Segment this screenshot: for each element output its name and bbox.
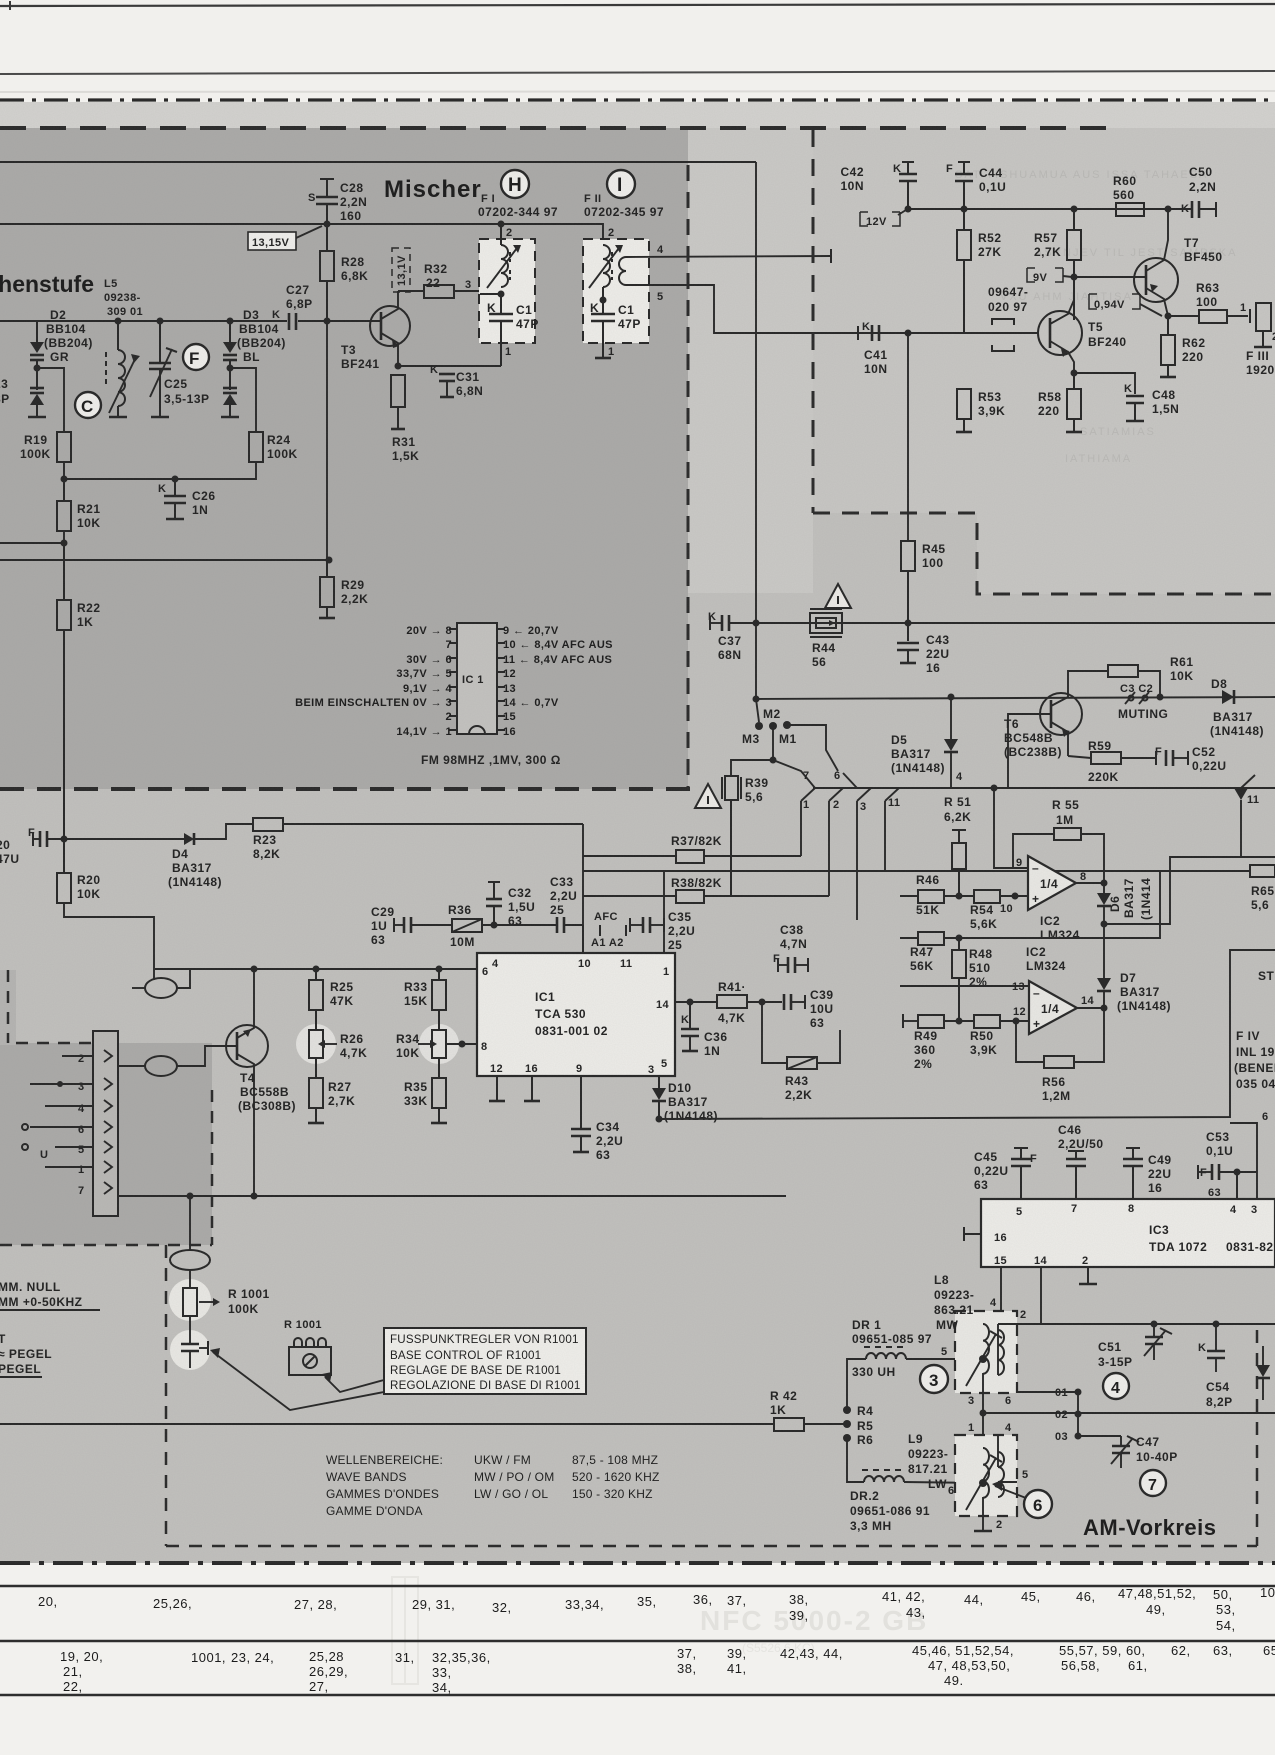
wire D6 node across [1104, 857, 1275, 924]
svg-text:54,: 54, [1216, 1618, 1236, 1633]
second top rule [0, 71, 1275, 74]
voltage label 0,94V [1089, 294, 1140, 309]
svg-text:1001,: 1001, [191, 1650, 226, 1665]
transistor T6 [1040, 693, 1082, 735]
svg-text:21,: 21, [63, 1664, 83, 1679]
svg-text:37,: 37, [677, 1646, 697, 1661]
circled I [607, 170, 635, 198]
resistor R62 [1167, 316, 1169, 335]
svg-text:NFC 5000-2 GB: NFC 5000-2 GB [700, 1605, 928, 1636]
node emitter/R63 [1165, 313, 1172, 320]
rail above [1040, 1310, 1042, 1324]
resistor R58 [1073, 373, 1075, 389]
filter F III [1249, 309, 1251, 323]
svg-text:32,35,36,: 32,35,36, [432, 1650, 491, 1665]
feedthrough oval lower [170, 1250, 210, 1270]
node C28 [324, 221, 331, 228]
resistor R52 [963, 209, 965, 230]
capacitor C29 [393, 918, 395, 932]
resistor R60 [1100, 208, 1116, 210]
resistor R35 [438, 1058, 440, 1078]
resistor R22 [63, 543, 65, 600]
svg-text:55,57, 59, 60,: 55,57, 59, 60, [1059, 1643, 1146, 1658]
wire y839 [47, 838, 184, 840]
row 1 numbers [38, 1585, 1275, 1633]
fuse R44 [810, 613, 842, 633]
rails R37 R38 [583, 855, 676, 857]
resistor R19 [57, 432, 71, 462]
voltage label 13,1V rotated [392, 248, 410, 292]
main rail y788 [813, 787, 1275, 789]
dashed outline dark patch [16, 1042, 93, 1045]
resistor R53 [957, 389, 971, 419]
svg-text:25,28: 25,28 [309, 1649, 344, 1664]
svg-text:27, 28,: 27, 28, [294, 1597, 337, 1612]
varactor D3 [227, 318, 234, 325]
transistor T4 [226, 1025, 268, 1067]
svg-text:43,: 43, [906, 1605, 926, 1620]
wire D3 to R24 [230, 368, 256, 432]
svg-text:36,: 36, [693, 1592, 713, 1607]
node F I pin2 [498, 221, 505, 228]
rail R42 [0, 1423, 774, 1425]
svg-text:45,: 45, [1021, 1589, 1041, 1604]
tick top-left [9, 1, 11, 10]
svg-text:62,: 62, [1171, 1643, 1191, 1658]
circled C [75, 392, 101, 418]
transistor T7 [1134, 258, 1178, 302]
circled 7 [1140, 1470, 1166, 1496]
svg-text:44,: 44, [964, 1592, 984, 1607]
muting rail y697 [756, 697, 1275, 699]
bottom white table area [0, 1563, 1275, 1755]
capacitor C32 [488, 881, 500, 883]
svg-text:56,58,: 56,58, [1061, 1658, 1100, 1673]
feedback R55 [1013, 834, 1054, 868]
resistor R59 [1068, 756, 1091, 758]
wire varactor rail y321 [0, 320, 240, 322]
resistor R63 [1168, 315, 1199, 317]
FM oscillator dashed-box lighter interior [813, 128, 1275, 513]
diode D8 [1222, 690, 1234, 704]
svg-text:26,29,: 26,29, [309, 1664, 348, 1679]
diode D10 [658, 1076, 660, 1088]
warning triangle [825, 584, 851, 608]
light band under dash-dot rule [0, 102, 1275, 128]
wire main bus y224 [0, 224, 603, 239]
voltage label 9V [1027, 268, 1063, 282]
diode right edge [1256, 1365, 1270, 1377]
svg-text:41, 42,: 41, 42, [882, 1589, 925, 1604]
svg-text:38,: 38, [677, 1661, 697, 1676]
svg-text:53,: 53, [1216, 1602, 1236, 1617]
input rail pin12 R49 R50 [902, 1014, 904, 1028]
voltage label 12V [860, 212, 900, 226]
svg-text:61,: 61, [1128, 1658, 1148, 1673]
mixer block dashed right border [687, 165, 690, 789]
wire vertical from y162 rail [755, 162, 757, 699]
switch LW [955, 1435, 1017, 1516]
wire base rail [298, 320, 380, 322]
resistor R27 [315, 1058, 317, 1078]
dark patch bottom-left connector area [0, 1043, 212, 1245]
varactor D2 [36, 321, 38, 342]
node T3 base [324, 318, 331, 325]
svg-text:39,: 39, [727, 1646, 747, 1661]
resistor R57 [1073, 209, 1075, 230]
transistor T3 [370, 306, 410, 346]
wire F II pin4 [626, 256, 831, 257]
switch MW [955, 1311, 1017, 1393]
choke DR2 [847, 1438, 864, 1482]
row 2 numbers [60, 1643, 1275, 1695]
svg-text:50,: 50, [1213, 1587, 1233, 1602]
resistor R41 [717, 995, 747, 1008]
capacitor C49 [1132, 1148, 1134, 1158]
capacitor C43 electrolytic [907, 623, 909, 641]
wire R23 column to IC1 pin10 [582, 824, 584, 953]
emitter node T5 [1071, 370, 1078, 377]
resistor R33 [438, 969, 440, 980]
resistor R36 [452, 919, 482, 932]
diode D6 [1097, 893, 1111, 905]
voltage label 13,15V [248, 232, 296, 250]
wire F II pin5 [626, 285, 1038, 333]
node base rail / R45 column [905, 330, 912, 337]
circled H [501, 170, 529, 198]
feedthrough ovals [145, 978, 177, 998]
wave bands text [326, 1453, 660, 1518]
wire left tap [0, 531, 64, 543]
svg-text:39,: 39, [789, 1608, 809, 1623]
svg-text:25,26,: 25,26, [153, 1596, 192, 1611]
rail y1196 from connector pin7 [118, 1195, 786, 1197]
svg-text:46,: 46, [1076, 1589, 1096, 1604]
svg-text:47,48,51,52,: 47,48,51,52, [1118, 1586, 1196, 1601]
svg-text:33,: 33, [432, 1665, 452, 1680]
svg-text:35,: 35, [637, 1594, 657, 1609]
IC3 TDA1072 [981, 1199, 1275, 1267]
sheet dash-dot border top [0, 98, 1275, 101]
resistor R65 [1250, 865, 1275, 877]
switch feeds down [800, 801, 802, 856]
capacitor C31 [398, 365, 501, 367]
table rules [0, 1585, 1275, 1587]
circled 3 [920, 1365, 948, 1393]
wire rail y560 [0, 559, 329, 561]
feedback R56 [1074, 1008, 1104, 1062]
svg-text:19, 20,: 19, 20, [60, 1649, 103, 1664]
mixer dark block [0, 128, 688, 789]
resistor R43 variable [762, 1002, 787, 1063]
callout arrows [213, 1352, 384, 1410]
rail pin13 [900, 937, 918, 939]
IF can F I [479, 239, 535, 343]
sheet dash-dot border bottom [0, 1561, 1275, 1565]
capacitor C34 [580, 1076, 582, 1128]
capacitor C50 [1165, 206, 1172, 213]
wire bottom rail y479 [64, 462, 256, 479]
heavy dashed rule under band [0, 126, 1118, 130]
IF can F II [583, 239, 649, 343]
opamp IC2a input network R46 R54 [900, 895, 918, 897]
svg-text:65: 65 [1263, 1643, 1275, 1658]
capacitor C39 [783, 994, 786, 1010]
dashed border bottom-left [165, 1245, 168, 1546]
svg-text:20,: 20, [38, 1594, 58, 1609]
inductor L5 [117, 321, 119, 350]
potentiometer R26 [296, 1024, 336, 1064]
IC1 pin1 wire up [663, 871, 665, 953]
resistor R24 [249, 432, 263, 462]
resistor R31 [395, 363, 402, 370]
potentiometer R34 [419, 1024, 459, 1064]
svg-text:45,46, 51,52,54,: 45,46, 51,52,54, [912, 1643, 1014, 1658]
resistor R21 [63, 479, 65, 501]
svg-text:29, 31,: 29, 31, [412, 1597, 455, 1612]
svg-text:38,: 38, [789, 1592, 809, 1607]
resistor R32 [398, 290, 424, 292]
circled F [183, 344, 209, 370]
resistor R23 [253, 818, 283, 831]
resistor R39 [731, 760, 773, 776]
IC1 TCA530 [477, 953, 675, 1076]
svg-text:47, 48,53,50,: 47, 48,53,50, [928, 1658, 1010, 1673]
svg-text:10: 10 [1260, 1585, 1275, 1600]
opamp IC2a [1028, 856, 1076, 910]
wire bus y623 [729, 622, 1275, 624]
trimmer C51 [1153, 1324, 1155, 1336]
capacitor C28 [320, 178, 334, 180]
FM box dashed bottom staircase [813, 513, 1275, 594]
nodes R4 R5 R6 [843, 1406, 851, 1414]
mixer block dashed bottom border [0, 787, 690, 791]
faint stamp bleed [700, 1605, 928, 1655]
circled 4 [1103, 1373, 1129, 1399]
transistor T5 [1038, 311, 1082, 355]
trimmer with halo [170, 1330, 210, 1370]
wire stub 6 [1230, 1123, 1257, 1199]
svg-text:37,: 37, [727, 1593, 747, 1608]
resistor R61 [1108, 665, 1138, 677]
callout box [384, 1328, 586, 1394]
warning triangle left [695, 784, 721, 808]
svg-text:27,: 27, [309, 1679, 329, 1694]
wire rail to pin9 [991, 785, 998, 792]
contact 11 right [1241, 775, 1255, 788]
potentiometer R1001 [169, 1279, 211, 1321]
trimmer C25 [157, 318, 164, 325]
diode D4 [184, 833, 194, 845]
capacitor C35 [642, 917, 645, 933]
supply bus 12V [908, 208, 1168, 210]
svg-text:63,: 63, [1213, 1643, 1233, 1658]
wire top rail y162 [0, 161, 756, 163]
svg-text:49,: 49, [1146, 1602, 1166, 1617]
FM box dashed left border [812, 130, 815, 513]
resistor R29 [326, 560, 328, 577]
svg-text:41,: 41, [727, 1661, 747, 1676]
diode D7 [1097, 978, 1111, 990]
IC1 test DIP diagram [457, 623, 497, 734]
resistor R45 [901, 541, 915, 571]
svg-text:23, 24,: 23, 24, [231, 1650, 274, 1665]
IC1 bottom pin stubs [496, 1076, 498, 1100]
svg-text:22,: 22, [63, 1679, 83, 1694]
long rail to F IV [659, 950, 1275, 1119]
resistor R25 [315, 969, 317, 980]
circled 6 [1024, 1490, 1052, 1518]
resistor R28 [326, 224, 328, 251]
resistor R20 [63, 839, 65, 873]
svg-text:33,34,: 33,34, [565, 1597, 604, 1612]
top edge rule [0, 4, 1275, 6]
switch contacts 7 6 1 2 3 11 [773, 760, 815, 788]
diode D5 [950, 697, 952, 739]
svg-text:31,: 31, [395, 1650, 415, 1665]
trimmer C47 [1120, 1436, 1122, 1445]
switch nodes M1 M2 M3 [755, 722, 763, 730]
svg-text:42,43, 44,: 42,43, 44, [780, 1646, 843, 1661]
IC1 pin14 stub [675, 1001, 717, 1003]
svg-text:34,: 34, [432, 1680, 452, 1695]
svg-text:32,: 32, [492, 1600, 512, 1615]
wire D2 to R19 [37, 368, 64, 432]
resistor R48 [958, 938, 960, 950]
faint bleed-through text [955, 169, 1237, 465]
svg-text:49.: 49. [944, 1673, 964, 1688]
IC3 pin wires below [1000, 1267, 1002, 1311]
rail y969 [155, 968, 477, 970]
light strip right of mixer block [688, 128, 813, 593]
